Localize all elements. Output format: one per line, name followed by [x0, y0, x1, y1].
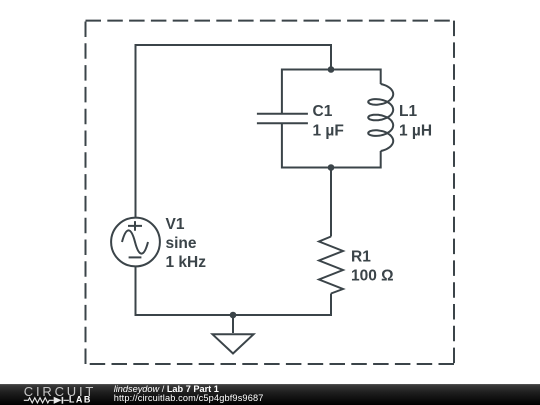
node junction: tank bottom — [328, 164, 335, 171]
schematic border frame right edge — [453, 21, 455, 364]
schematic border frame (dashed) top edge — [86, 20, 455, 22]
svg-text:LAB: LAB — [69, 395, 92, 405]
svg-text:C1: C1 — [313, 103, 333, 120]
svg-text:1 kHz: 1 kHz — [166, 254, 207, 271]
V1 minus sign — [129, 256, 142, 258]
ground triangle — [213, 334, 254, 353]
V1 sine wave — [122, 230, 148, 253]
wire: V1 bottom, down, bottom wire to resistor bottom lead — [136, 266, 332, 315]
node junction: ground — [230, 312, 237, 319]
V1 plus sign — [128, 221, 142, 231]
svg-text:R1: R1 — [351, 249, 371, 266]
svg-text:100 Ω: 100 Ω — [351, 268, 394, 285]
svg-text:V1: V1 — [166, 216, 185, 233]
schematic border frame bottom edge — [86, 363, 455, 365]
svg-text:1 µH: 1 µH — [399, 123, 432, 140]
resistor R1 zigzag — [319, 237, 343, 294]
voltage source V1 circle — [111, 218, 160, 267]
capacitor C1 plates — [257, 114, 308, 124]
svg-text:L1: L1 — [399, 103, 417, 120]
schematic border frame left edge — [85, 21, 87, 364]
node junction: tank top — [328, 66, 335, 73]
footer bar — [0, 384, 540, 405]
inductor L1 coil — [368, 84, 393, 151]
wire: V1 top to top-left corner, across top, down to tank top junction — [136, 45, 332, 218]
logo diode triangle — [54, 397, 62, 404]
wire: tank bottom rail — [282, 123, 381, 167]
svg-text:sine: sine — [166, 235, 197, 252]
svg-text:http://circuitlab.com/c5p4gbf9: http://circuitlab.com/c5p4gbf9s9687 — [114, 393, 264, 403]
wire: resistor R1 top lead — [330, 168, 332, 237]
wire: tank top rail — [282, 70, 381, 114]
svg-text:1 µF: 1 µF — [313, 123, 344, 140]
logo schematic: wire, resistor squiggle, diode — [24, 397, 69, 404]
ground stub wire — [232, 315, 234, 333]
